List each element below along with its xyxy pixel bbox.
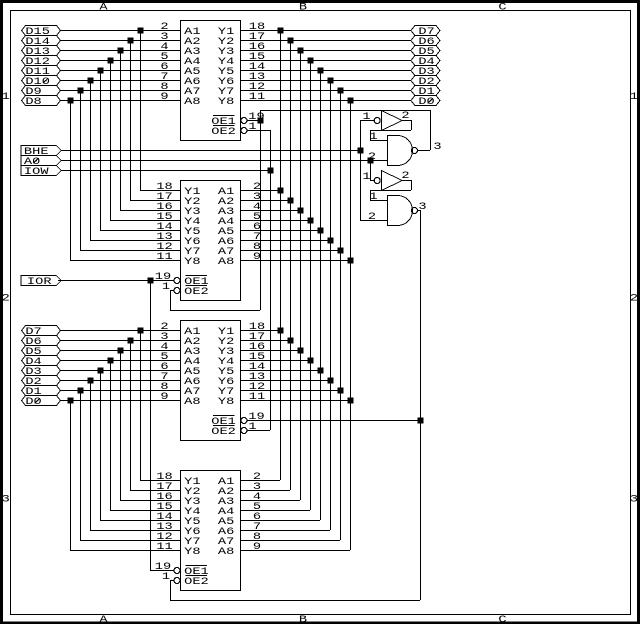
svg-text:A8: A8 [184,397,200,408]
svg-text:2: 2 [2,294,10,305]
svg-text:1: 1 [248,122,256,133]
svg-text:2: 2 [401,171,409,182]
svg-text:A8: A8 [184,97,200,108]
svg-text:1: 1 [2,92,10,103]
svg-text:1: 1 [362,172,370,183]
svg-text:3: 3 [418,202,426,213]
svg-text:2: 2 [368,152,376,163]
svg-text:IOR: IOR [27,277,52,288]
svg-text:3: 3 [2,495,10,506]
svg-text:11: 11 [249,92,265,103]
svg-text:Y8: Y8 [218,397,234,408]
svg-text:9: 9 [253,252,261,263]
svg-text:1: 1 [630,92,638,103]
svg-text:3: 3 [630,495,638,506]
svg-text:IOW: IOW [24,167,50,178]
svg-text:2: 2 [368,212,376,223]
svg-text:OE2: OE2 [184,287,209,298]
svg-text:11: 11 [156,542,172,553]
svg-text:A: A [99,615,108,624]
svg-text:3: 3 [433,142,441,153]
svg-text:1: 1 [362,112,370,123]
svg-text:1: 1 [369,132,377,143]
svg-text:11: 11 [156,252,172,263]
svg-text:OE2: OE2 [211,427,236,438]
svg-text:Y8: Y8 [218,97,234,108]
svg-text:OE2: OE2 [184,577,209,588]
svg-text:11: 11 [249,392,265,403]
svg-text:Y8: Y8 [184,257,200,268]
svg-text:9: 9 [160,92,168,103]
svg-text:2: 2 [401,111,409,122]
svg-text:B: B [299,2,307,13]
svg-text:Y8: Y8 [184,547,200,558]
svg-text:1: 1 [248,422,256,433]
svg-text:A8: A8 [218,257,234,268]
svg-text:2: 2 [630,294,638,305]
svg-text:9: 9 [253,542,261,553]
svg-text:9: 9 [160,392,168,403]
svg-text:1: 1 [162,572,170,583]
svg-text:C: C [498,2,506,13]
svg-text:OE2: OE2 [211,127,236,138]
svg-text:A8: A8 [218,547,234,558]
svg-text:A: A [99,2,108,13]
svg-text:1: 1 [162,282,170,293]
svg-text:D8: D8 [25,97,41,108]
svg-text:C: C [498,615,506,624]
svg-text:1: 1 [369,192,377,203]
svg-text:B: B [299,615,307,624]
